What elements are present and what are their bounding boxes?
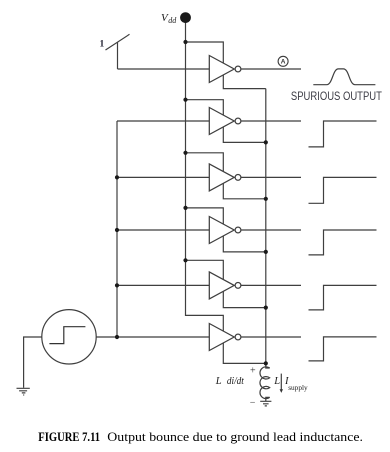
svg-text:dd: dd — [168, 16, 177, 25]
svg-text:1: 1 — [100, 40, 105, 50]
svg-text:FIGURE 7.11: FIGURE 7.11 — [38, 430, 100, 444]
svg-text:L: L — [273, 376, 280, 387]
svg-text:Output bounce due to ground le: Output bounce due to ground lead inducta… — [107, 430, 363, 444]
svg-text:A: A — [281, 59, 286, 66]
svg-text:−: − — [250, 398, 256, 409]
svg-text:L: L — [215, 376, 222, 387]
svg-text:di/dt: di/dt — [227, 376, 244, 387]
svg-text:SPURIOUS OUTPUT: SPURIOUS OUTPUT — [291, 89, 382, 103]
svg-text:supply: supply — [288, 383, 308, 392]
svg-text:+: + — [250, 365, 256, 376]
